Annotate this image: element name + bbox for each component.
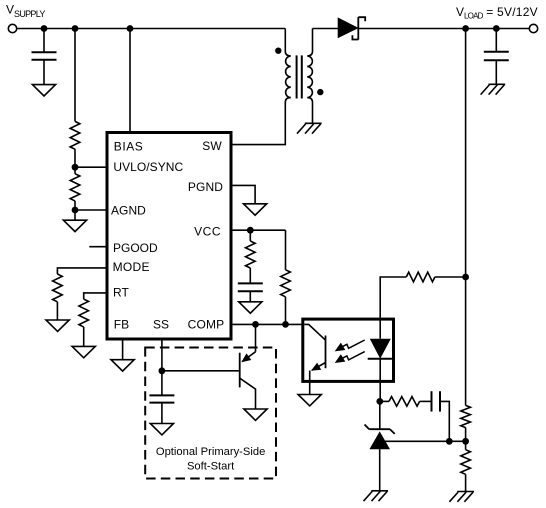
ground (output cap) — [481, 84, 506, 94]
wire C_SS to ground — [161, 403, 163, 424]
op-amp U2 (optocoupler box) — [303, 319, 394, 381]
ground (RT) — [72, 346, 95, 357]
node: output cap junction — [493, 25, 500, 32]
wire diode to output — [358, 28, 529, 30]
phase dot primary — [275, 48, 281, 54]
capacitor C_VCC — [238, 283, 263, 291]
ground (Q1 collector) — [244, 409, 267, 420]
svg-text:SS: SS — [153, 318, 169, 332]
transistor Q1 emitter — [242, 352, 255, 362]
svg-text:SW: SW — [202, 139, 222, 153]
transformer T1 secondary winding — [307, 29, 312, 124]
ground (PGND) — [244, 204, 267, 215]
wire VCC — [231, 229, 286, 231]
resistor R_UVLO_bottom — [70, 174, 80, 201]
resistor R_UVLO_top — [70, 121, 80, 149]
capacitor C_OUT — [495, 29, 497, 52]
wire R_opto to rail — [435, 276, 466, 278]
node: rail-feed junction — [462, 274, 469, 281]
transistor Q1 base bar — [239, 353, 241, 388]
wire divider top — [74, 29, 76, 122]
capacitor C_SS — [149, 395, 174, 402]
svg-text:BIAS: BIAS — [114, 139, 144, 153]
svg-text:Optional Primary-Side: Optional Primary-Side — [156, 446, 265, 458]
svg-text:AGND: AGND — [111, 203, 146, 217]
svg-text:FB: FB — [114, 318, 129, 332]
wire C_VCC to ground — [249, 291, 251, 302]
svg-text:VCC: VCC — [194, 224, 221, 238]
capacitor C_IN — [43, 29, 45, 53]
diode LED (opto) — [379, 319, 381, 339]
wire R to tap — [465, 428, 467, 450]
wire MODE — [57, 268, 106, 274]
opto phototransistor base bar — [325, 336, 327, 369]
node: zener junction — [376, 398, 383, 405]
wire FB — [122, 339, 124, 360]
resistor R_VCC — [246, 241, 256, 268]
dashed box: optional soft-start — [145, 348, 276, 479]
wire R_MODE to ground — [56, 302, 58, 320]
node: soft-start emitter junction — [252, 321, 259, 328]
ground (input cap) — [32, 85, 55, 96]
ground (VCC cap) — [239, 302, 262, 313]
node UVLO/SYNC junction — [72, 164, 79, 171]
node: right rail junction — [462, 25, 469, 32]
ground (FB) — [111, 360, 134, 371]
resistor R_comp — [389, 397, 420, 407]
node VCC junction — [247, 227, 254, 234]
wire right rail — [465, 29, 467, 406]
svg-text:Soft-Start: Soft-Start — [187, 461, 235, 473]
wire C to junction — [440, 401, 449, 441]
transformer core — [296, 55, 298, 98]
ground (MODE) — [46, 320, 69, 331]
ground (soft-start cap) — [150, 424, 173, 435]
ground (opto emitter) — [298, 395, 321, 406]
wire VCC cap branch — [249, 230, 251, 241]
opto light arrow 2 — [343, 352, 365, 360]
wire junction to ground — [74, 210, 76, 220]
op-amp U1 (switching regulator IC) — [107, 133, 231, 340]
wire top input rail — [17, 28, 286, 30]
wire to UVLO/SYNC pin — [75, 166, 107, 168]
wire R to COMP line — [285, 297, 287, 325]
wire R top to junction — [74, 149, 76, 167]
svg-text:MODE: MODE — [113, 260, 150, 274]
phase dot secondary — [317, 89, 323, 95]
wire PGND — [231, 185, 255, 203]
wire R to C — [420, 400, 432, 402]
resistor R_opto_feed — [406, 272, 435, 282]
node: BIAS junction — [127, 25, 134, 32]
wire RT — [84, 293, 107, 299]
wire COMP — [231, 323, 301, 325]
capacitor C_comp — [432, 391, 441, 411]
resistor R_FB_bottom — [461, 450, 471, 475]
node: RC junction — [446, 438, 453, 445]
wire to AGND pin — [75, 209, 107, 211]
transistor Q1 collector — [240, 378, 256, 409]
node: UVLO divider junction — [72, 25, 79, 32]
svg-text:PGND: PGND — [188, 180, 223, 194]
wire LED anode feed — [380, 277, 406, 318]
wire SS to base — [162, 370, 239, 372]
opto light arrow 1 — [343, 340, 365, 348]
wire SS — [161, 339, 163, 395]
resistor R_comp_pullup — [281, 270, 291, 297]
svg-text:RT: RT — [113, 286, 129, 300]
resistor R_RT — [79, 299, 89, 327]
wire SW — [231, 102, 285, 145]
wire VCC to R_comp branch — [285, 230, 287, 270]
wire secondary to diode — [313, 28, 339, 30]
svg-text:PGOOD: PGOOD — [113, 241, 158, 255]
node SS junction — [159, 367, 166, 374]
ground (divider) — [63, 220, 86, 231]
ground (divider bottom) — [449, 492, 474, 502]
ground (transformer secondary) — [297, 123, 322, 133]
wire to comp RC — [380, 400, 389, 402]
wire zener to divider — [385, 440, 466, 442]
resistor R_MODE — [53, 274, 63, 302]
node: pullup junction — [282, 321, 289, 328]
wire BIAS — [129, 29, 131, 133]
transformer T1 primary winding — [285, 29, 291, 103]
wire R_VCC to cap — [249, 268, 251, 283]
node: divider tap — [462, 438, 469, 445]
node: input cap junction — [41, 25, 48, 32]
zener diode DZ — [369, 428, 390, 430]
ground (zener) — [364, 491, 389, 501]
wire divider to ground — [465, 474, 467, 491]
opto phototransistor emitter — [312, 363, 326, 371]
svg-text:COMP: COMP — [188, 318, 225, 332]
V_SUPPLY input terminal — [8, 24, 16, 32]
wire opto emitter to ground — [309, 371, 311, 395]
diode D1 (Schottky) — [338, 18, 357, 37]
transistor Q1 (PNP) emitter wire — [255, 324, 257, 351]
wire R_RT to ground — [83, 327, 85, 347]
wire PGOOD stub — [89, 246, 106, 248]
opto phototransistor collector — [304, 324, 325, 340]
resistor R_FB_top — [461, 405, 471, 427]
svg-text:UVLO/SYNC: UVLO/SYNC — [113, 160, 183, 174]
V_LOAD output terminal — [529, 24, 537, 32]
zener diode DZ cathode wire — [379, 401, 381, 429]
wire between junctions — [74, 167, 76, 174]
node AGND junction — [72, 207, 79, 214]
